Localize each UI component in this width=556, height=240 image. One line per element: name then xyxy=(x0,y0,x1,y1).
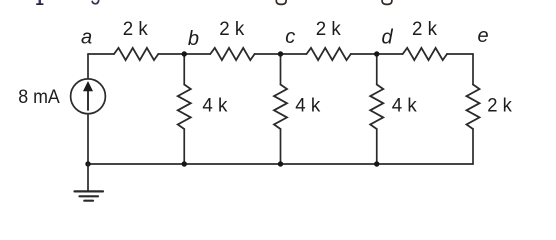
junction dot node d bottom xyxy=(374,161,379,166)
resistor R1 2k between a and b xyxy=(114,48,158,60)
svg-text:2 k: 2 k xyxy=(487,95,512,117)
cropped text descender "g" fragment 1 xyxy=(276,0,286,4)
resistor R2 2k between b and c xyxy=(210,48,254,60)
junction dot node b top xyxy=(182,51,187,56)
wire vertical node b top lead xyxy=(183,54,185,85)
wire node a down to current source xyxy=(87,54,89,79)
wire current source to bottom rail xyxy=(87,114,89,164)
current source I1 circle xyxy=(71,79,106,114)
ground bar 1 xyxy=(75,190,104,192)
svg-text:d: d xyxy=(381,27,393,49)
svg-text:4 k: 4 k xyxy=(295,95,320,117)
resistor R7 4k at node d xyxy=(370,85,383,130)
ground bar 2 xyxy=(80,195,99,197)
svg-text:2 k: 2 k xyxy=(412,18,437,40)
wire vertical node c top lead xyxy=(280,54,282,85)
wire vertical node b bottom lead xyxy=(183,129,185,164)
cropped text descender "p" fragment top-left xyxy=(36,0,43,5)
resistor R6 4k at node c xyxy=(274,85,287,130)
wire top rail: R4 to node e corner xyxy=(447,53,473,55)
ground stem xyxy=(87,164,89,191)
wire top rail: node d to R4 xyxy=(377,53,403,55)
resistor R8 2k at node e xyxy=(467,85,480,130)
svg-text:4 k: 4 k xyxy=(392,95,417,117)
wire top rail: node c to R3 xyxy=(281,53,307,55)
wire top rail: R2 to node c xyxy=(255,53,281,55)
svg-text:4 k: 4 k xyxy=(202,95,227,117)
junction dot node c top xyxy=(278,51,283,56)
svg-text:e: e xyxy=(477,25,488,47)
resistor R3 2k between c and d xyxy=(307,48,351,60)
wire vertical node e top lead xyxy=(472,54,474,85)
junction dot node d top xyxy=(374,51,379,56)
current source arrow shaft xyxy=(87,90,89,110)
junction dot node c bottom xyxy=(278,161,283,166)
junction dot node b bottom xyxy=(182,161,187,166)
svg-text:2 k: 2 k xyxy=(316,18,341,40)
wire vertical node d bottom lead xyxy=(376,129,378,164)
ground bar 3 xyxy=(84,200,93,202)
svg-text:b: b xyxy=(188,28,199,50)
svg-text:8 mA: 8 mA xyxy=(18,86,60,108)
svg-text:c: c xyxy=(285,26,295,48)
junction dot bottom left at source xyxy=(85,161,90,166)
cropped text descender "g" fragment 2 xyxy=(382,0,392,4)
resistor R5 4k at node b xyxy=(178,85,191,130)
current source arrowhead xyxy=(83,81,93,91)
wire top rail: R3 to node d xyxy=(351,53,377,55)
cropped text descender "y" fragment xyxy=(92,0,99,4)
wire vertical node c bottom lead xyxy=(280,129,282,164)
svg-text:2 k: 2 k xyxy=(123,18,148,40)
resistor R4 2k between d and e xyxy=(403,48,447,60)
svg-text:2 k: 2 k xyxy=(219,18,244,40)
svg-text:a: a xyxy=(81,27,92,49)
wire vertical node d top lead xyxy=(376,54,378,85)
wire top rail: node a corner to R1 xyxy=(88,53,114,55)
wire top rail: R1 to node b xyxy=(158,53,184,55)
wire bottom rail xyxy=(88,163,473,165)
wire vertical node e bottom lead xyxy=(472,129,474,164)
wire top rail: node b to R2 xyxy=(184,53,210,55)
